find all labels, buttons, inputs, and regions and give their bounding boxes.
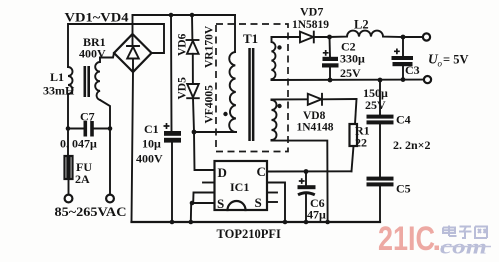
- svg-text:VD5: VD5: [177, 77, 189, 100]
- label 150u 25V: [363, 86, 388, 112]
- svg-text:10μ: 10μ: [142, 137, 161, 151]
- label FU 2A: [75, 160, 92, 186]
- svg-text:C4: C4: [396, 113, 411, 127]
- capacitor C7 (X-cap across line): [66, 121, 113, 137]
- transformer T1 secondary winding (output): [272, 37, 276, 80]
- node: C2 return junction: [328, 78, 333, 83]
- capacitor C6 (control pin cap): [298, 172, 316, 225]
- svg-text:TOP210PFI: TOP210PFI: [217, 227, 281, 241]
- label TOP210PFI: [217, 227, 281, 241]
- label C7: [80, 110, 95, 124]
- label VR170V (rotated): [204, 25, 216, 68]
- label VD1~VD4: [65, 11, 130, 25]
- watermark 21IC: [378, 220, 439, 258]
- svg-text:= 5V: = 5V: [443, 53, 469, 67]
- label C3: [405, 63, 420, 77]
- svg-text:L1: L1: [50, 70, 64, 84]
- svg-text:VD6: VD6: [177, 33, 189, 56]
- svg-text:VD8: VD8: [303, 110, 326, 122]
- wire: output return rail: [272, 79, 424, 81]
- resistor R1: [350, 99, 358, 171]
- svg-text:400V: 400V: [136, 152, 163, 166]
- wire: to +5V terminal: [403, 36, 423, 38]
- svg-text:T1: T1: [243, 31, 258, 46]
- label C4 2.2n x2: [393, 113, 431, 153]
- svg-text:S: S: [217, 196, 224, 211]
- transformer T1 primary winding: [229, 52, 236, 132]
- svg-text:25V: 25V: [340, 66, 361, 80]
- label U0 = 5V: [428, 52, 469, 69]
- label S pin left: [217, 196, 224, 211]
- node: C4 branch junction: [378, 78, 383, 83]
- node: C1 top junction: [169, 13, 174, 18]
- wire: fuse to left AC terminal: [68, 179, 70, 195]
- diode VD7: [300, 32, 330, 43]
- label C2 330u 25V: [340, 40, 365, 81]
- svg-text:C: C: [257, 164, 266, 179]
- wire: C pin to R1 and C6: [267, 170, 352, 172]
- wire: VD6 to VD5: [192, 54, 194, 84]
- wire: L1 right winding down to right AC terminal: [100, 100, 110, 195]
- svg-text:VD1~VD4: VD1~VD4: [65, 11, 130, 25]
- svg-text:1N5819: 1N5819: [292, 19, 329, 31]
- pin stub: left row3 tied to S: [193, 193, 214, 204]
- IC U1 TOP210PFI body: [215, 161, 268, 210]
- node: drain junction: [192, 130, 197, 135]
- node: C3 return junction: [401, 77, 406, 82]
- node: secondary phase dot: [277, 45, 281, 49]
- svg-text:VR170V: VR170V: [204, 25, 216, 68]
- pin stub: right row2 to ground rail: [267, 183, 287, 225]
- node: VD7 cathode / C2 junction: [327, 35, 332, 40]
- label R1 22: [355, 124, 370, 150]
- wire: primary-side ground bottom rail: [132, 221, 381, 223]
- wire: bridge bottom vertex down to ground rail: [132, 72, 134, 222]
- label VF4005 (rotated): [204, 85, 216, 124]
- fuse FU: [65, 156, 73, 179]
- label S pin right: [255, 195, 262, 210]
- svg-text:L2: L2: [354, 18, 369, 32]
- svg-text:C3: C3: [405, 63, 420, 77]
- wire: secondary top to VD7 anode: [272, 36, 301, 38]
- terminal: right AC input: [106, 195, 114, 203]
- wire: L1 left winding down through fuse branch: [67, 94, 69, 156]
- inductor L1 core bars: [84, 66, 91, 97]
- wire: feedback winding bottom return: [272, 141, 330, 225]
- node: C6 junction: [304, 169, 309, 174]
- diode VD5 (blocking, cathode down): [187, 84, 199, 98]
- label VD7 1N5819: [292, 5, 329, 32]
- svg-text:1N4148: 1N4148: [297, 122, 334, 134]
- label T1: [243, 31, 258, 46]
- pin stub: left row2: [203, 182, 215, 184]
- terminal: output return: [424, 76, 431, 83]
- label 85~265VAC: [55, 205, 127, 219]
- wire: feedback winding top to VD8: [272, 98, 308, 100]
- svg-text:47μ: 47μ: [307, 208, 326, 222]
- capacitor C2 (output filter): [322, 37, 339, 80]
- svg-text:C7: C7: [80, 110, 95, 124]
- label VD5 (rotated): [177, 77, 189, 100]
- capacitor C3 (output filter): [392, 37, 414, 80]
- transformer T1 feedback winding: [272, 100, 277, 141]
- pin stub: right row3: [267, 192, 277, 194]
- svg-text:o: o: [438, 59, 443, 69]
- svg-text:2A: 2A: [75, 172, 90, 186]
- capacitor C1 bulk (branch, plates, polarity): [164, 15, 182, 224]
- wire: drain node to primary bottom: [194, 131, 236, 133]
- capacitor C4 (Y-cap): [367, 80, 394, 177]
- svg-text:85~265VAC: 85~265VAC: [55, 205, 127, 219]
- label VD8 1N4148: [297, 110, 334, 134]
- svg-text:com: com: [440, 237, 487, 259]
- svg-text:33mH: 33mH: [43, 84, 75, 98]
- svg-text:0. 047μ: 0. 047μ: [60, 137, 97, 151]
- transformer T1 core bars: [248, 48, 254, 141]
- label VD6 (rotated): [177, 33, 189, 56]
- svg-text:VF4005: VF4005: [204, 85, 216, 124]
- node: L2 out / C3 junction: [401, 35, 406, 40]
- node: clamp branch top junction: [190, 13, 195, 18]
- node: feedback phase dot: [277, 104, 281, 108]
- capacitor C5 (Y-cap): [367, 177, 394, 222]
- wire: bridge top vertex up to DC+ rail: [132, 15, 134, 34]
- inductor L1 right winding: [95, 58, 100, 101]
- node: primary phase dot: [223, 112, 227, 116]
- label BR1 400V: [79, 35, 106, 61]
- terminal: left AC input: [65, 195, 73, 203]
- wire: DC+ top rail: [133, 14, 236, 16]
- watermark CJK dianziwang: [443, 226, 487, 239]
- svg-text:C5: C5: [396, 182, 411, 196]
- pin stub: right row4 S: [267, 201, 277, 203]
- wire: S pin left to ground rail: [189, 201, 215, 225]
- inductor L1 common-mode choke left winding: [68, 67, 73, 94]
- wire: VD5 down to drain node: [193, 98, 194, 132]
- label L1 33mH: [43, 70, 75, 98]
- label D pin: [218, 165, 227, 180]
- label IC1: [230, 180, 249, 194]
- svg-text:IC1: IC1: [230, 180, 249, 194]
- svg-text:D: D: [218, 165, 227, 180]
- label C5: [396, 182, 411, 196]
- zener VD6 (clamp, cathode up): [187, 15, 199, 54]
- svg-text:C1: C1: [144, 122, 159, 136]
- svg-text:21IC: 21IC: [378, 220, 435, 258]
- wire: bridge left vertex to L1 right winding: [100, 53, 114, 58]
- svg-text:VD7: VD7: [300, 5, 323, 19]
- label C1 10u 400V: [136, 122, 163, 166]
- label C pin: [257, 164, 266, 179]
- svg-text:25V: 25V: [365, 98, 386, 112]
- svg-text:330μ: 330μ: [340, 52, 365, 66]
- svg-text:2. 2n×2: 2. 2n×2: [393, 138, 431, 152]
- terminal: +5V output: [423, 33, 430, 40]
- label 0.047u: [60, 137, 97, 151]
- watermark com: [440, 237, 491, 259]
- inductor L2: [330, 31, 404, 37]
- label L2: [354, 18, 369, 32]
- label C6 47u: [307, 196, 326, 222]
- diode VD8: [308, 94, 357, 105]
- svg-text:S: S: [255, 195, 262, 210]
- wire: drain node down and right to D pin: [194, 132, 215, 170]
- bridge rectifier BR1 (diamond): [114, 34, 152, 72]
- wire: AC line top-left (fuse side) to bridge right vertex: [68, 24, 164, 67]
- wire: net-A drop to transformer primary top: [234, 15, 236, 52]
- transformer T1 shield (dashed box): [216, 24, 288, 152]
- svg-text:22: 22: [355, 136, 367, 150]
